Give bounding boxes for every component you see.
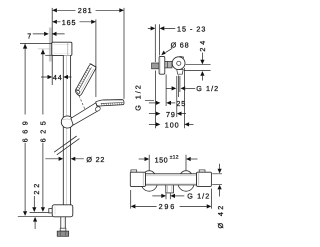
dim 15-23 extension lines	[155, 24, 159, 62]
dim 24 line + arrows	[201, 53, 203, 60]
dim G1/2 (outlet) arrows + label	[152, 195, 161, 197]
dim 296 extension lines	[131, 189, 212, 209]
outlet nose under head	[177, 70, 183, 75]
svg-text:Ø 42: Ø 42	[216, 203, 225, 228]
svg-text:15 - 23: 15 - 23	[177, 25, 206, 34]
dashed axis line of stowed shower	[76, 88, 85, 110]
holder hook at paddle bottom	[76, 90, 80, 94]
bottom outlet stub	[166, 185, 174, 193]
small ring at handle/head junction	[95, 106, 102, 112]
dim Ø42 line + arrows	[219, 164, 221, 169]
extension line (625 / 22 upper)	[30, 211, 52, 213]
dim Ø42 extension lines	[212, 174, 222, 185]
svg-text:669: 669	[21, 117, 30, 143]
hose conical nut	[57, 231, 68, 236]
svg-text:Ø 68: Ø 68	[171, 41, 190, 50]
dim 79	[149, 113, 156, 115]
hand shower handle (to lower head)	[71, 103, 99, 125]
slider holder ball on rail	[61, 116, 73, 128]
svg-text:79: 79	[166, 110, 176, 119]
dim 165 extension line right	[95, 19, 97, 97]
dim 281 extension line right	[123, 8, 125, 99]
dim Ø22 (rail diameter)	[45, 158, 84, 160]
spray-face hatching on lower head	[102, 103, 122, 106]
right handle knob	[199, 170, 205, 172]
svg-text:44: 44	[53, 73, 63, 82]
dim 150±12 extension lines	[149, 155, 186, 171]
svg-text:G 1/2: G 1/2	[196, 84, 219, 93]
dim 669 top extension line	[20, 42, 52, 44]
wall flange	[159, 56, 165, 74]
dim G1/2 right arrows + label	[166, 87, 172, 89]
hand shower stowed in holder (upper paddle)	[75, 63, 96, 95]
svg-text:100: 100	[165, 120, 180, 129]
valve body bar	[145, 174, 196, 185]
svg-text:22: 22	[32, 181, 41, 195]
dim 150±12	[139, 158, 146, 160]
dim G1/2 (outlet) extension lines	[166, 193, 170, 199]
dim 22 line + arrows	[33, 196, 35, 208]
dim 25	[149, 102, 156, 104]
dim 44 extension line (wall plane)	[41, 76, 72, 78]
dim 281 extension line left (wall plane)	[51, 8, 53, 31]
dim 281	[57, 9, 120, 11]
dim 100	[149, 123, 156, 125]
svg-text:165: 165	[62, 18, 77, 27]
svg-text:G 1/2: G 1/2	[133, 83, 142, 111]
left handle knob	[131, 170, 137, 172]
svg-text:7: 7	[27, 31, 31, 40]
shower rail (vertical tube)	[63, 55, 70, 205]
holder round head	[180, 56, 184, 60]
hose outlet tube below mount	[61, 217, 66, 228]
union escutcheon right (circle + lower arc)	[180, 171, 193, 184]
svg-text:±12: ±12	[170, 154, 179, 160]
dim 625 top extension line	[38, 48, 52, 50]
svg-text:150: 150	[155, 155, 169, 164]
wall line (gray band behind top bracket)	[49, 28, 52, 62]
svg-text:Ø 22: Ø 22	[86, 155, 105, 164]
svg-text:24: 24	[198, 38, 207, 52]
top wall bracket	[52, 42, 72, 55]
dim 15-23	[148, 27, 176, 29]
dim 24 extension lines	[184, 65, 211, 71]
svg-text:281: 281	[78, 6, 93, 15]
bottom rail mount	[49, 209, 53, 213]
dim 165	[57, 21, 91, 23]
svg-text:625: 625	[38, 117, 47, 143]
svg-text:296: 296	[159, 202, 176, 211]
dim 625 vertical line with arrows	[42, 49, 44, 207]
supply pipe stub (in wall)	[152, 63, 160, 69]
svg-text:G 1/2: G 1/2	[187, 192, 210, 201]
extension line (669 / 22 lower)	[18, 215, 54, 217]
dim G1/2 (right, holder outlet) extension lines	[177, 76, 180, 118]
connector block	[165, 61, 172, 68]
dim 296	[131, 204, 136, 208]
rows reference line (pipe axis)	[155, 71, 157, 129]
union escutcheon left (circle + lower arc)	[143, 171, 156, 184]
spray-face hatching on upper paddle	[76, 68, 90, 90]
rail break mark (double diagonal)	[54, 136, 79, 155]
dim 669 vertical line with arrows	[24, 44, 26, 212]
hand shower head (lower, horizontal)	[96, 100, 124, 107]
